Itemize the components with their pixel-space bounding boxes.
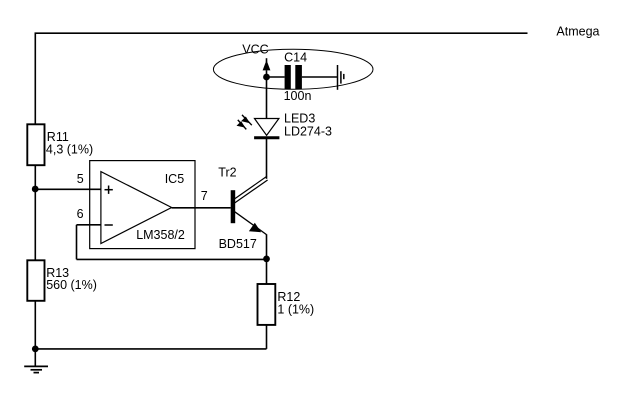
wire: feedback horizontal to left: [77, 258, 267, 260]
svg-text:6: 6: [77, 207, 84, 221]
wire: node to C14 left plate: [267, 76, 285, 78]
op-amp IC5 triangle: [101, 172, 172, 244]
op-amp plus input marker: [105, 186, 113, 194]
svg-text:IC5: IC5: [165, 172, 185, 186]
svg-text:BD517: BD517: [219, 237, 257, 251]
svg-text:1 (1%): 1 (1%): [277, 303, 314, 317]
ground symbol bottom-left: [24, 366, 48, 372]
wire: vertical up to R12 bottom: [266, 325, 268, 349]
capacitor C14 right plate: [295, 65, 302, 89]
svg-text:560 (1%): 560 (1%): [46, 278, 97, 292]
wire: emitter down to node: [266, 234, 268, 259]
svg-text:Tr2: Tr2: [218, 166, 236, 180]
wire: op-amp output to transistor base: [172, 207, 231, 209]
junction node at emitter/R12/feedback: [263, 256, 270, 263]
svg-text:Atmega: Atmega: [556, 25, 599, 39]
power symbol VCC arrow: [266, 58, 268, 62]
LED light arrow 1: [241, 115, 252, 125]
wire: pin 6 input stub: [77, 224, 102, 226]
svg-text:5: 5: [77, 172, 84, 186]
resistor R13: [27, 260, 44, 301]
transistor Tr2 emitter line: [235, 212, 267, 235]
wire: C14 right plate to ground: [302, 76, 338, 78]
wire: bottom horizontal from left node to R12 branch: [35, 348, 266, 350]
wire: top Atmega net horizontal: [35, 32, 528, 34]
LED LED3 cathode bar: [254, 136, 279, 139]
svg-text:7: 7: [201, 189, 208, 203]
op-amp IC5 body box: [90, 161, 195, 249]
ground symbol right (rotated): [338, 65, 344, 90]
wire: pin 5 input stub: [35, 188, 101, 190]
wire: feedback vertical up to pin 6: [76, 225, 78, 260]
wire: R12 top to emitter node: [266, 259, 268, 284]
resistor R12: [258, 284, 276, 325]
svg-text:100n: 100n: [284, 89, 312, 103]
svg-text:C14: C14: [284, 50, 307, 64]
LED light arrow 2: [237, 120, 247, 129]
transistor Tr2 base bar: [231, 190, 236, 223]
wire: VCC node down to LED anode: [266, 70, 268, 118]
capacitor C14 left plate: [285, 65, 291, 89]
svg-text:VCC: VCC: [242, 42, 268, 56]
junction node at R11/R13/pin5: [32, 186, 39, 193]
wire: collector vertical up to LED cathode: [266, 139, 268, 179]
svg-text:LM358/2: LM358/2: [136, 228, 185, 242]
svg-text:LD274-3: LD274-3: [284, 124, 332, 138]
junction node VCC/C14: [263, 74, 270, 81]
transistor Tr2 emitter arrowhead: [249, 223, 261, 233]
wire: R11 bottom to R13 top: [34, 165, 36, 260]
svg-text:4,3 (1%): 4,3 (1%): [46, 143, 93, 157]
wire: left vertical from top net to R11: [34, 33, 36, 124]
op-amp minus input marker: [105, 224, 113, 226]
annotation ellipse around VCC/C14: [213, 49, 373, 89]
resistor R11: [27, 124, 44, 165]
wire: R13 bottom to ground: [34, 301, 36, 367]
junction node at bottom-left: [32, 346, 39, 353]
transistor Tr2 collector double line: [234, 176, 268, 203]
LED LED3 triangle: [255, 119, 279, 136]
